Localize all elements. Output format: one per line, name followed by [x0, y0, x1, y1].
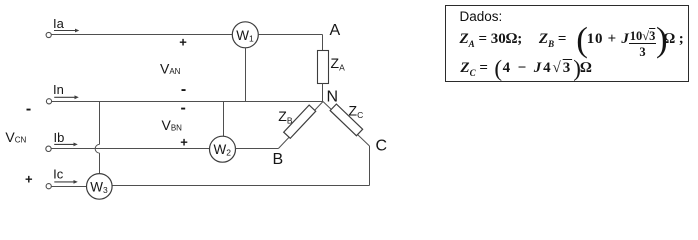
wire bottom return to W3	[112, 185, 369, 187]
value ZB	[539, 32, 567, 52]
svg-text:Ib: Ib	[54, 130, 65, 145]
wire C down	[369, 146, 371, 186]
dados box	[445, 5, 689, 82]
impedance ZA	[318, 51, 329, 84]
wattmeter W1	[232, 22, 258, 48]
wire B to N diagonal	[278, 102, 323, 149]
wire Ib to W2	[51, 148, 209, 150]
arrow Ib	[54, 143, 78, 147]
svg-text:+: +	[179, 34, 187, 49]
svg-text:C: C	[376, 137, 388, 154]
wire ZA to N	[322, 84, 324, 102]
svg-text:ZC: ZC	[349, 102, 364, 120]
value ZA	[460, 32, 523, 52]
impedance ZB	[284, 105, 316, 138]
wire A down to ZA	[322, 35, 324, 51]
svg-text:+: +	[25, 172, 33, 187]
paren close mid	[573, 57, 581, 80]
wire Ia to W1	[51, 34, 232, 36]
svg-text:VAN: VAN	[160, 61, 181, 77]
paren open mid	[494, 57, 502, 80]
terminal In	[46, 99, 51, 104]
paren open big	[576, 22, 588, 57]
svg-text:B: B	[273, 151, 284, 168]
wire Ic to W3	[51, 186, 86, 188]
svg-text:-: -	[26, 101, 31, 118]
fraction 10root3 over 3	[629, 30, 656, 58]
arrow In	[54, 95, 79, 99]
wattmeter W3	[87, 174, 113, 200]
svg-text:A: A	[330, 22, 341, 39]
svg-text:+: +	[180, 135, 188, 150]
arrow Ia	[54, 29, 79, 33]
svg-text:VCN: VCN	[5, 129, 26, 145]
paren close big	[656, 22, 668, 57]
wire W2 voltage tap	[223, 102, 225, 137]
svg-text:ZB: ZB	[278, 108, 293, 126]
wire W2 to node B	[235, 148, 278, 150]
terminal Ib	[46, 146, 51, 151]
ZB inner terms	[587, 32, 630, 47]
wire W1 voltage tap	[245, 48, 247, 102]
svg-text:Ic: Ic	[53, 167, 64, 182]
wire neutral drop to W3 with hop over Ib	[95, 102, 99, 174]
svg-text:In: In	[53, 82, 64, 97]
impedance ZC	[330, 104, 363, 136]
svg-text:-: -	[181, 81, 186, 98]
terminal Ic	[46, 184, 51, 189]
ZB unit omega	[664, 32, 684, 47]
wire In (neutral) to N	[52, 101, 323, 103]
svg-text:ZA: ZA	[331, 55, 346, 73]
svg-text:Ia: Ia	[53, 16, 65, 31]
svg-text:VBN: VBN	[162, 117, 183, 133]
svg-text:N: N	[327, 89, 339, 106]
ZC inner terms	[503, 61, 573, 76]
value ZC	[460, 61, 488, 81]
label Dados title	[460, 9, 503, 24]
wattmeter W2	[210, 136, 236, 162]
arrow Ic	[54, 180, 78, 184]
svg-text:-: -	[181, 99, 186, 116]
wire N to C diagonal	[323, 102, 370, 147]
ZC unit omega	[580, 61, 592, 76]
wire W1 to node A	[258, 34, 322, 36]
terminal Ia	[46, 32, 51, 37]
